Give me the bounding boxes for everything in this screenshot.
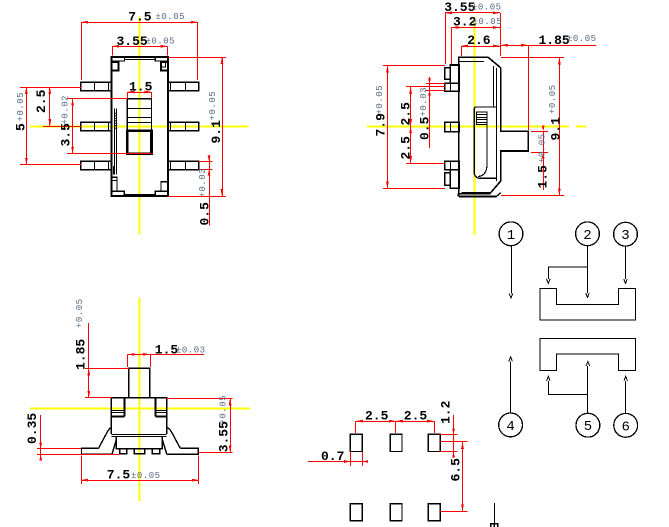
dim 1.5 BL [128, 354, 204, 356]
arrows 1.85 BL [87, 369, 90, 376]
top tab TR [450, 65, 459, 83]
svg-text:2: 2 [583, 228, 591, 244]
svg-text:3.55: 3.55 [216, 421, 231, 452]
arrows 5 [25, 87, 28, 94]
wire from pin 2 [587, 246, 589, 293]
arrows 3.55 [112, 45, 119, 48]
arrow pin 2 [586, 293, 590, 298]
dim 1.5 line [127, 92, 151, 94]
pin S2 [445, 122, 459, 132]
svg-text:0.7: 0.7 [321, 449, 344, 464]
terminal circle 4 [499, 413, 523, 437]
svg-text:1: 1 [507, 228, 515, 244]
right gull wing diagonals [167, 428, 180, 449]
arrows 1.5 [127, 91, 134, 94]
arrows 7.5 [81, 21, 88, 24]
right shoulder BL [155, 398, 157, 417]
svg-text:0.35: 0.35 [25, 413, 40, 444]
left shoulder BL [124, 398, 126, 417]
bottom-left riser [112, 177, 117, 191]
foot tab 2 [134, 449, 144, 454]
pad 2 [390, 434, 402, 451]
inner wall lines TR [493, 66, 495, 107]
pad 3 [428, 434, 440, 451]
arrows 1.85 TR [501, 44, 508, 47]
arrows 3.55 TR [445, 12, 452, 15]
dim 1.5 TR [543, 131, 545, 190]
svg-text:0.5: 0.5 [418, 116, 433, 140]
arrows 3.5 [71, 99, 74, 106]
top cap TR [460, 61, 485, 63]
body lower BL [116, 437, 162, 448]
dim 2.5 2.5 pads [356, 421, 434, 423]
arrows 6.5 pads [461, 442, 464, 449]
pin R3 [168, 161, 199, 169]
left gull wing foot [82, 448, 113, 454]
arrows 2.6 TR [461, 45, 468, 48]
bottom-right tab [155, 191, 168, 195]
pin S1 [445, 83, 459, 91]
svg-text:5: 5 [14, 123, 29, 131]
svg-text:±0.05: ±0.05 [472, 2, 502, 12]
arrows 0.35 BL [39, 443, 42, 449]
dim 7.5 line [81, 22, 198, 24]
terminal circle 3 [614, 222, 638, 246]
svg-text:9.1: 9.1 [209, 120, 224, 144]
svg-text:±0.05: ±0.05 [131, 471, 161, 481]
slider knob hole TL [127, 131, 151, 154]
svg-text:+0.02: +0.02 [61, 95, 71, 125]
spring hatch TR [476, 112, 487, 125]
arrows 3.55 BL [229, 398, 232, 405]
top-right notch inner [161, 62, 166, 67]
svg-text:2.5: 2.5 [365, 409, 389, 424]
arrows 0.7 pad [344, 460, 350, 463]
dim 7.9 TR [387, 66, 389, 189]
centerline dash TR [576, 126, 586, 128]
arrow branch 5 [547, 376, 551, 381]
svg-text:1.85: 1.85 [539, 33, 570, 48]
contact hatch [114, 112, 116, 130]
arrows 1.5 TR [542, 125, 545, 131]
dim 3.55 line [112, 46, 168, 48]
dim 6.5 pads [462, 442, 464, 512]
svg-text:+0.05: +0.05 [548, 84, 558, 114]
arrow pin 4 [509, 357, 513, 362]
dim 3.55 TR [445, 12, 500, 14]
wire from pin 3 [625, 246, 627, 279]
branch wire pin 5 [548, 381, 588, 395]
svg-text:±0.05: ±0.05 [146, 37, 176, 47]
svg-text:1.2: 1.2 [439, 400, 454, 424]
dim 9.1 TR [559, 57, 561, 195]
dim 3.5 line [72, 99, 74, 154]
svg-text:±0.05: ±0.05 [473, 17, 503, 27]
svg-text:2.5: 2.5 [34, 89, 49, 113]
arrow branch 2 [547, 279, 551, 284]
svg-text:3.55: 3.55 [117, 34, 148, 49]
terminal circle 1 [499, 222, 523, 246]
wire from pin 4 [510, 361, 512, 413]
svg-text:2.5: 2.5 [399, 136, 414, 160]
svg-text:3.55: 3.55 [444, 0, 475, 15]
contact strip [114, 109, 116, 175]
pin R2 [168, 122, 199, 130]
arrows 1.2 pad [452, 428, 455, 434]
pin R1 [168, 82, 199, 90]
dim 9.1 line [222, 57, 224, 196]
wire from pin 5 [587, 366, 589, 413]
svg-text:7.9: 7.9 [374, 113, 389, 137]
svg-text:1.5: 1.5 [536, 165, 551, 189]
left gull wing diagonals [99, 428, 112, 449]
svg-text:9.1: 9.1 [549, 117, 564, 141]
svg-text:5: 5 [584, 419, 592, 435]
top contact bracket [540, 289, 635, 320]
svg-text:2.6: 2.6 [467, 33, 491, 48]
body bottom edge TR [459, 196, 497, 198]
svg-text:+0.03: +0.03 [198, 168, 208, 198]
branch wire pin 2 [548, 267, 587, 279]
svg-text:0.5: 0.5 [198, 202, 213, 226]
pad 1 [350, 434, 362, 451]
arrow pin 5 [586, 362, 590, 367]
dim 0.35 BL [40, 415, 42, 459]
wire from pin 6 [625, 381, 627, 414]
bottom cap TR [462, 192, 490, 194]
svg-text:+0.05: +0.05 [16, 92, 26, 122]
arrows 9.1 [221, 57, 224, 64]
slider upper TL [127, 99, 151, 131]
pad 4 [350, 504, 362, 521]
stray leader line [494, 503, 496, 524]
terminal circle 5 [576, 413, 600, 437]
centerline horizontal TL [30, 126, 249, 128]
dim 0.5 line [209, 155, 211, 226]
body upper BL [111, 398, 166, 434]
arrows 2.5 TR [409, 87, 412, 94]
bottom-right step [161, 182, 168, 191]
BL red dimensions [37, 323, 232, 484]
dim 5 line [26, 87, 28, 165]
arrows 0.5 TR [428, 79, 431, 84]
dim 1.85 TR [501, 45, 596, 47]
right gull wing foot [167, 448, 199, 454]
svg-text:+0.05: +0.05 [75, 298, 85, 328]
svg-text:7.5: 7.5 [128, 10, 152, 25]
bottom recess line [124, 194, 155, 196]
top-left shoulder [112, 57, 125, 61]
dim 2.6 TR [461, 46, 500, 48]
pad 6 [428, 504, 440, 521]
dim 3.2 TR [452, 27, 501, 29]
pin L3 [81, 161, 112, 169]
svg-text:±0.03: ±0.03 [176, 346, 206, 356]
svg-text:+0.03: +0.03 [419, 87, 429, 117]
svg-text:6.5: 6.5 [449, 458, 464, 482]
centerline vertical TR [474, 17, 476, 235]
top recess line [124, 59, 155, 61]
knob BL [129, 368, 150, 398]
bottom contact bracket [540, 338, 635, 370]
svg-text:2.5: 2.5 [404, 409, 428, 424]
svg-text:3: 3 [621, 228, 629, 244]
pin L2 [81, 122, 112, 130]
bottom-left tab [112, 191, 125, 195]
dim 7.5 BL [81, 480, 199, 482]
foot tab 3 [152, 449, 159, 454]
arrows 2.5 pads [356, 420, 363, 423]
foot tab 1 [120, 449, 127, 454]
svg-text:+0.05: +0.05 [208, 91, 218, 121]
dim 2.5 line [49, 87, 51, 126]
slider TR [474, 107, 497, 178]
arrows 7.5 BL [81, 479, 88, 482]
arrows 3.2 TR [452, 26, 459, 29]
svg-text:±0.05: ±0.05 [156, 12, 186, 22]
arrow pin 6 [624, 376, 628, 381]
pin S3 [445, 161, 459, 169]
svg-text:2.5: 2.5 [399, 102, 414, 126]
stray glyph bottom edge [491, 524, 498, 527]
terminal circle 6 [614, 413, 638, 437]
dim 3.55 BL [230, 398, 232, 452]
pin L1 [81, 82, 112, 90]
TL red dimensions [20, 22, 226, 225]
dim 1.85 BL [88, 323, 90, 398]
arrows 7.9 TR [386, 66, 389, 73]
dim 0.5 TR [429, 77, 431, 148]
svg-text:7.5: 7.5 [107, 468, 131, 483]
pad 5 [390, 504, 402, 521]
dim 2.5 2.5 TR [410, 87, 412, 163]
wire from pin 1 [511, 246, 513, 294]
svg-text:3.5: 3.5 [59, 123, 74, 147]
svg-text:1.85: 1.85 [74, 339, 89, 370]
dim 0.7 pad [308, 461, 363, 463]
centerline vertical TL [139, 17, 141, 235]
dim 1.2 pad [453, 415, 455, 454]
body outline TL [112, 57, 169, 196]
top-right notch [161, 62, 168, 71]
svg-text:6: 6 [622, 419, 630, 435]
TR red dimensions [383, 13, 596, 196]
svg-text:4: 4 [506, 419, 514, 435]
top-left notch [112, 62, 119, 71]
centerline horizontal BL [30, 408, 250, 410]
body bottom double line BL [111, 434, 166, 436]
slider inner line TR [478, 125, 487, 177]
svg-text:±0.05: ±0.05 [567, 34, 597, 44]
arrows 1.5 BL [128, 353, 135, 356]
centerline vertical BL [139, 298, 141, 501]
arrow pin 1 [509, 294, 513, 299]
arrow pin 3 [624, 279, 628, 284]
svg-text:+0.05: +0.05 [375, 85, 385, 115]
terminal circle 2 [576, 222, 600, 246]
arrows 9.1 TR [558, 57, 561, 64]
body outline TR [459, 57, 528, 194]
svg-text:1.5: 1.5 [129, 79, 153, 94]
top-right shoulder [155, 57, 168, 61]
bottom tab TR [450, 170, 459, 189]
svg-text:1.5: 1.5 [155, 343, 179, 358]
arrows 0.5 [208, 155, 211, 161]
svg-text:+0.05: +0.05 [538, 133, 548, 163]
centerline horizontal TR [367, 126, 569, 128]
arrows 2.5 [49, 87, 52, 94]
svg-text:+0.05: +0.05 [218, 395, 228, 425]
